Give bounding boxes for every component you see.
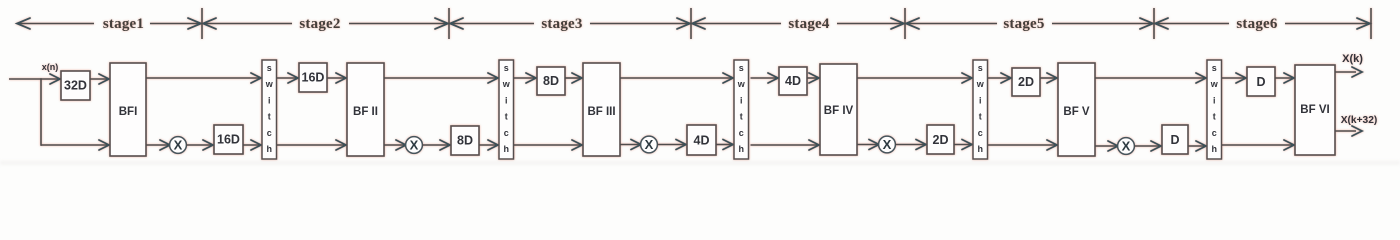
wire switch1 to BFII bottom [277,144,346,146]
wire BFIV to switch4 top [857,77,971,79]
arrow into switch2 bottom [488,140,498,150]
wire 4D to BFIV [807,77,818,79]
arrow into 8D top [526,73,536,83]
arrow output X(k) [1352,67,1362,77]
wire 2D to switch4 [954,144,971,146]
svg-text:stage4: stage4 [788,16,829,32]
svg-text:i: i [268,95,271,105]
wire 8D to BFIII [565,77,581,79]
arrow into 4D top [768,73,778,83]
wire D to BFVI [1275,77,1293,79]
arrow into 8D [440,140,450,150]
svg-text:X: X [883,137,892,152]
switch SW4 [973,60,988,159]
butterfly BF II [347,63,384,156]
wire D to switch5 [1188,145,1205,147]
butterfly BF IV [820,64,857,155]
svg-text:2D: 2D [933,133,949,147]
svg-text:w: w [265,79,274,89]
arrow into BFI bottom [99,140,109,150]
arrow into BFV bottom [1047,140,1057,150]
faint scan artifact strip [0,161,1400,165]
arrow into BFVI top [1284,73,1294,83]
arrow into switch4 top [962,73,972,83]
delay 8D bottom [451,126,479,155]
svg-text:c: c [739,128,744,138]
svg-text:stage6: stage6 [1236,16,1277,32]
svg-text:h: h [978,144,984,154]
arrow into BFVI bottom [1284,140,1294,150]
arrow into BFII bottom [336,140,346,150]
multiplier M4 [879,136,896,153]
output wire X(k+32) [1335,130,1356,132]
svg-text:t: t [268,112,271,122]
wire BFIII to switch3 top [620,77,732,79]
svg-text:i: i [505,95,508,105]
delay D top [1247,67,1275,96]
arrow into 4D [676,140,686,150]
wire switch4 to 2D top [988,77,1010,79]
svg-text:c: c [1212,128,1217,138]
delay 8D top [537,67,565,95]
arrow into BFII top [336,73,346,83]
wire switch3 to 4D top [751,77,778,79]
wire switch4 to BFV bottom [988,144,1056,146]
wire 32D to BFI [90,78,108,80]
svg-text:w: w [737,79,746,89]
wire 16D to switch1 [243,144,260,146]
multiplier M5 [1118,138,1135,155]
wire BFIV to multiplier4 [857,144,878,146]
svg-text:h: h [739,144,745,154]
svg-text:BF VI: BF VI [1300,104,1329,116]
wire switch5 to D top [1222,77,1245,79]
stage boundary tick [1153,8,1155,39]
wire switch1 to 16D top [277,77,298,79]
output wire X(k) [1335,71,1356,73]
multiplier M3 [641,136,658,153]
delay D bottom [1162,125,1188,154]
svg-text:X(k): X(k) [1342,53,1363,65]
arrow into BFIV top [809,73,819,83]
svg-text:w: w [502,79,511,89]
wire mult2 to 8D [422,144,449,146]
delay 2D top [1012,68,1040,96]
switch SW1 [262,60,277,159]
svg-text:stage1: stage1 [103,16,144,32]
arrow into switch4 bottom [962,140,972,150]
wire mult3 to 4D [657,144,685,146]
svg-text:BF IV: BF IV [824,105,854,117]
svg-text:4D: 4D [785,74,801,88]
arrow into switch3 bottom [723,140,733,150]
svg-text:w: w [976,79,985,89]
svg-text:s: s [267,63,272,73]
arrow into 16D top [288,73,298,83]
svg-text:s: s [1212,63,1217,73]
svg-text:c: c [267,128,272,138]
arrow into BFI top [99,74,109,84]
svg-text:8D: 8D [543,74,559,88]
stage boundary tick [448,8,450,39]
arrow into BFIII top [572,73,582,83]
svg-text:t: t [505,112,508,122]
arrow into multiplier1 [160,140,170,150]
svg-text:t: t [740,112,743,122]
butterfly BF VI [1295,65,1335,155]
svg-text:c: c [978,128,983,138]
svg-text:x(n): x(n) [42,62,59,72]
node x(n) input wire [9,78,60,80]
svg-text:s: s [504,63,509,73]
wire BFV to switch5 top [1095,77,1205,79]
arrow into switch3 top [723,73,733,83]
svg-text:BF V: BF V [1063,106,1090,118]
butterfly BF V [1058,63,1095,156]
switch SW5 [1207,60,1222,159]
svg-text:t: t [979,112,982,122]
arrow into 2D top [1001,73,1011,83]
wire BFI to multiplier1 [146,144,169,146]
svg-text:h: h [1212,144,1218,154]
svg-text:X: X [410,138,419,153]
arrow into BFV top [1047,73,1057,83]
switch SW3 [734,60,749,159]
svg-text:h: h [504,144,510,154]
dimension arrow stage4 [692,16,904,32]
stage boundary tick [201,8,203,39]
arrow into multiplier2 [396,140,406,150]
wire switch3 to BFIV bottom [751,144,819,146]
wire BFIII to multiplier3 [620,144,640,146]
svg-text:t: t [1213,112,1216,122]
arrow into D top [1236,73,1246,83]
arrow into D [1151,141,1161,151]
svg-text:i: i [740,95,743,105]
multiplier M2 [406,137,423,154]
svg-text:stage5: stage5 [1003,16,1044,32]
arrow into switch2 top [488,73,498,83]
svg-text:c: c [504,128,509,138]
arrow into multiplier3 [631,140,641,150]
svg-text:i: i [1213,95,1216,105]
dimension arrow stage6 [1155,16,1370,32]
input branch wire down [40,78,42,146]
svg-text:BF II: BF II [353,106,378,118]
stage boundary tick [904,8,906,39]
arrow into BFIV bottom [809,140,819,150]
svg-text:D: D [1256,75,1265,89]
arrow into switch5 top [1196,73,1206,83]
butterfly BF III [583,63,620,156]
wire mult5 to D [1134,145,1160,147]
stage boundary tick [1370,8,1372,39]
delay 32D [61,71,90,100]
svg-text:s: s [978,63,983,73]
svg-text:X(k+32): X(k+32) [1341,115,1378,126]
arrow into multiplier4 [869,140,879,150]
stage boundary tick [690,8,692,39]
svg-text:X: X [174,138,183,153]
arrow into 2D [916,140,926,150]
svg-text:stage2: stage2 [299,16,340,32]
dimension arrow stage2 [203,16,448,32]
dimension arrow stage3 [450,16,690,32]
svg-text:stage3: stage3 [541,16,582,32]
arrow into 32D [50,74,60,84]
delay 16D top [299,63,327,92]
arrow into switch5 bottom [1196,141,1206,151]
delay 16D bottom [214,125,243,154]
svg-text:i: i [979,95,982,105]
wire 2D to BFV [1040,77,1056,79]
arrow output X(k+32) [1352,126,1362,136]
wire BFV to multiplier5 [1095,145,1117,147]
multiplier M1 [170,137,187,154]
wire BFII to multiplier2 [384,144,405,146]
svg-text:D: D [1170,133,1179,147]
wire BFI to switch1 top [146,77,260,79]
wire 16D to BFII [327,77,345,79]
wire switch5 to BFVI bottom [1222,144,1293,146]
wire 4D to switch3 [716,144,732,146]
svg-text:w: w [1210,79,1219,89]
svg-text:2D: 2D [1018,75,1034,89]
svg-text:BF III: BF III [587,106,615,118]
svg-text:8D: 8D [457,134,473,148]
butterfly BFI [110,63,146,156]
svg-text:X: X [645,137,654,152]
switch SW2 [499,60,514,159]
wire 8D to switch2 [479,144,497,146]
wire BFII to switch2 top [384,77,497,79]
wire switch2 to 8D top [514,77,536,79]
svg-text:s: s [739,63,744,73]
arrow into 16D [203,140,213,150]
wire mult4 to 2D [895,144,925,146]
svg-text:16D: 16D [217,133,240,147]
wire switch2 to BFIII bottom [514,144,582,146]
delay 4D top [779,67,807,95]
arrow into multiplier5 [1108,141,1118,151]
svg-text:X: X [1122,139,1131,154]
svg-text:h: h [267,144,273,154]
wire bottom to BFI [41,144,108,146]
svg-text:4D: 4D [694,134,710,148]
svg-text:16D: 16D [302,71,325,85]
arrow into switch1 bottom [251,140,261,150]
wire mult1 to 16D [186,144,212,146]
arrow into switch1 top [251,73,261,83]
svg-text:32D: 32D [64,79,87,93]
dimension arrow stage5 [906,16,1153,32]
svg-text:BFI: BFI [119,106,138,118]
dimension arrow stage1 [17,16,201,32]
delay 4D bottom [687,125,716,155]
delay 2D bottom [927,125,954,154]
arrow into BFIII bottom [572,140,582,150]
